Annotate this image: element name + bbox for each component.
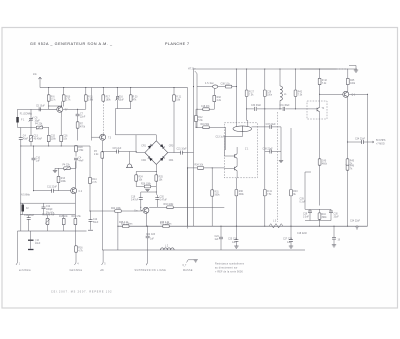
terminal 4 (75, 231, 77, 265)
svg-text:1uF: 1uF (36, 160, 41, 162)
svg-text:C13 1uF: C13 1uF (216, 137, 225, 139)
wire C24 (220, 226, 222, 250)
svg-text:390k: 390k (239, 194, 245, 196)
wire bus C right segment dashdot (300, 68, 357, 70)
svg-text:R 20: R 20 (133, 97, 139, 99)
svg-text:+ REF de la serie 9000: + REF de la serie 9000 (215, 271, 243, 274)
wire T3 connections (92, 135, 105, 152)
wire: left input line (18, 108, 57, 110)
wire right cluster rail (305, 209, 331, 226)
wire R25 (155, 172, 157, 195)
wire P4b (55, 166, 76, 168)
svg-text:C30: C30 (334, 214, 339, 216)
wire C22 (147, 226, 149, 258)
wire R42b down (295, 97, 297, 109)
wire R41 down (264, 196, 266, 226)
wire R26 (136, 186, 156, 188)
wire: top bus A (40, 87, 188, 89)
inductor L1 (280, 86, 282, 100)
svg-text:R36 2.4k: R36 2.4k (160, 222, 170, 224)
svg-text:C11 22nF: C11 22nF (47, 187, 58, 189)
svg-text:C15 2uF: C15 2uF (113, 148, 122, 150)
svg-text:R 11: R 11 (88, 97, 93, 99)
svg-text:C39: C39 (300, 199, 305, 201)
svg-text:C34 22uF: C34 22uF (355, 139, 366, 141)
diode bridge frame (145, 141, 168, 165)
wire bell (129, 152, 131, 165)
wire: rail link column (117, 211, 119, 250)
svg-text:3.9M: 3.9M (88, 99, 93, 101)
wire C12 (43, 203, 45, 214)
capacitor C30b (329, 211, 333, 213)
trimmer arrow C16 (115, 96, 119, 101)
resistor R15 (62, 218, 65, 224)
capacitor C20 (155, 198, 159, 200)
wire R27 down (246, 97, 248, 109)
capacitor C25 to gnd (234, 240, 238, 242)
wire bridge bottom down (155, 165, 157, 172)
wire mid row y108.9 (247, 108, 311, 110)
svg-text:MASSE: MASSE (183, 269, 193, 272)
diode CR3 (160, 144, 165, 149)
wire R11 vertical (85, 88, 87, 110)
thermistor F2 (22, 205, 25, 212)
wire P3 down (101, 158, 103, 250)
resistor R41 (263, 190, 266, 196)
svg-text:100n: 100n (267, 95, 273, 97)
terminal 6 masse (187, 260, 196, 263)
wire: bottom rail middle (118, 225, 368, 227)
capacitor C12 (42, 207, 46, 209)
capacitor C11 (52, 189, 54, 193)
resistor R16 (74, 218, 77, 224)
svg-text:R14: R14 (92, 179, 97, 181)
wire C10 (33, 146, 35, 191)
svg-text:R 27: R 27 (249, 92, 255, 94)
wire R43 down (290, 196, 292, 226)
svg-text:+7 MOD: +7 MOD (376, 143, 385, 145)
wire R40 down (235, 196, 237, 226)
wire L1 down (279, 100, 281, 109)
svg-text:R10: R10 (66, 97, 71, 99)
wire R16 (74, 215, 76, 231)
wire tube pins (236, 69, 247, 127)
svg-text:C38 22uF: C38 22uF (263, 149, 274, 151)
wire: +24v stub (39, 80, 41, 88)
svg-text:C31 36uF: C31 36uF (280, 105, 291, 107)
svg-text:CR3: CR3 (169, 146, 174, 148)
svg-text:P4 22k: P4 22k (63, 165, 71, 167)
capacitor C29 (308, 211, 312, 213)
svg-text:+Bt: +Bt (100, 269, 104, 272)
wire: bottom rail left (18, 230, 87, 232)
svg-text:1uF: 1uF (232, 242, 237, 244)
wire: top bus C (194, 68, 337, 70)
wire R16a (60, 117, 62, 146)
svg-text:R45: R45 (350, 161, 355, 163)
wire left edge (18, 109, 21, 135)
wire C34 out (348, 141, 375, 143)
resistor R17 (102, 95, 105, 101)
svg-text:CEI.2007. MS 2007. REPERE 102: CEI.2007. MS 2007. REPERE 102 (51, 291, 112, 294)
capacitor C38 (270, 150, 272, 154)
svg-text:Gm: Gm (134, 211, 138, 213)
svg-text:CR1: CR1 (141, 146, 146, 148)
capacitor C21 (181, 151, 183, 155)
wire R17 dashed down (102, 88, 104, 95)
capacitor C31 (283, 107, 285, 111)
wire C28 down (264, 97, 266, 109)
svg-text:0.47uF: 0.47uF (160, 199, 168, 201)
terminal 1 (16, 231, 18, 265)
wire tube bottom (224, 132, 242, 145)
capacitor C13 (89, 220, 93, 222)
resistor R19 (225, 85, 231, 88)
wire C16 (115, 88, 136, 135)
resistor R15a (47, 135, 50, 141)
svg-text:1uF: 1uF (150, 239, 155, 241)
svg-text:C21 10uF: C21 10uF (177, 149, 188, 151)
svg-text:C20: C20 (160, 197, 165, 199)
wire row y203 (21, 146, 76, 231)
svg-text:10uF: 10uF (119, 99, 125, 101)
transistor T2 (71, 188, 77, 194)
diode CR4 (160, 156, 165, 161)
svg-text:C16: C16 (119, 97, 124, 99)
resistor R22 (115, 210, 121, 213)
capacitor C14 (27, 218, 31, 220)
svg-text:R32: R32 (217, 97, 222, 99)
svg-text:560k: 560k (215, 194, 221, 196)
wire x367.5 down (367, 142, 369, 226)
svg-text:R16: R16 (78, 248, 83, 250)
svg-text:GE 952A _ GENERATEUR SON A.M.: GE 952A _ GENERATEUR SON A.M. _ (30, 42, 113, 46)
wire zener row (197, 86, 236, 88)
wire x236.4 z-box down (235, 178, 237, 189)
svg-text:22nF: 22nF (80, 116, 86, 118)
resistor C18 (203, 108, 209, 111)
resistor R42 (318, 78, 321, 84)
wire base joins (63, 108, 86, 110)
svg-text:C37 22uF: C37 22uF (266, 124, 277, 126)
svg-text:100k: 100k (350, 83, 356, 85)
svg-text:R35 2.2k: R35 2.2k (119, 222, 129, 224)
wire x264.8 down (264, 109, 266, 189)
svg-text:R18: R18 (78, 147, 83, 149)
svg-text:C13: C13 (34, 136, 39, 138)
wire row y146 left (21, 145, 90, 147)
resistor R18 (75, 145, 78, 151)
svg-text:390k: 390k (322, 217, 328, 219)
wire R14 vertical x90 (89, 146, 91, 211)
wire C19 (141, 192, 157, 207)
wire C16b (30, 231, 32, 249)
ground top right (349, 66, 356, 70)
capacitor C5 (39, 107, 41, 111)
svg-text:C1b: C1b (93, 219, 98, 221)
bridge top wire loop (136, 135, 156, 153)
wire: mid rail y250 (102, 249, 305, 251)
potentiometer P3 (101, 152, 104, 158)
svg-text:40uF: 40uF (23, 138, 29, 140)
svg-text:3.3nF: 3.3nF (303, 217, 309, 219)
resistor R34 (197, 167, 203, 170)
svg-text:CR4: CR4 (169, 160, 174, 162)
capacitor C41 to gnd (332, 238, 336, 240)
svg-text:C24: C24 (215, 236, 220, 238)
terminal 5 (102, 250, 104, 265)
resistor R27 (245, 90, 248, 96)
capacitor C27 to gnd (289, 240, 293, 242)
inductor L2 (161, 248, 175, 250)
ground C38 (279, 161, 283, 163)
wire P2a (30, 128, 32, 147)
potentiometer P4 (36, 126, 42, 129)
capacitor C37 (270, 125, 272, 129)
capacitor C10 (32, 158, 36, 160)
svg-text:C14 40uF: C14 40uF (24, 215, 35, 217)
wire R21 (173, 88, 175, 153)
svg-text:R34 10k: R34 10k (195, 165, 204, 167)
wire R6 (48, 88, 50, 107)
resistor R32 (213, 95, 216, 101)
capacitor C19 (139, 198, 143, 200)
wire P4 row (21, 127, 49, 129)
wire x291 down (290, 128, 292, 189)
svg-text:33uF: 33uF (334, 217, 340, 219)
wire R7 down (77, 128, 79, 140)
wire C13 (90, 211, 92, 230)
resistor R44 (318, 213, 321, 219)
wire R10 (63, 88, 65, 107)
transistor T5b (235, 166, 238, 170)
wire R16b row (196, 127, 226, 133)
wire: bus A corner down to bottom bus (187, 88, 189, 227)
resistor R16b (203, 126, 209, 129)
wire C6 (30, 109, 32, 127)
transistor T1 (343, 91, 349, 97)
svg-text:Cal 6.3Vrms: Cal 6.3Vrms (70, 269, 83, 272)
transistor T3 (100, 134, 106, 140)
svg-text:N 5.6Ma: N 5.6Ma (21, 195, 30, 197)
svg-text:10uF: 10uF (35, 243, 41, 245)
resistor R45 (346, 78, 349, 84)
svg-text:470k: 470k (78, 150, 84, 152)
svg-text:PLANCHE 7: PLANCHE 7 (165, 42, 190, 46)
capacitor C28 (263, 90, 266, 96)
svg-text:SUPPRESSION LIGNE: SUPPRESSION LIGNE (135, 270, 167, 272)
svg-text:C2? C28: C2? C28 (283, 239, 293, 241)
svg-text:C5 10uF: C5 10uF (36, 106, 45, 108)
svg-text:50uF: 50uF (93, 222, 99, 224)
resistor R16c (75, 246, 78, 252)
resistor R16a (60, 135, 63, 141)
capacitor C7 (76, 114, 80, 116)
svg-text:C16: C16 (63, 136, 68, 138)
ground R26 (145, 190, 149, 192)
resistor R33 (167, 206, 173, 209)
wire F2 (22, 203, 24, 214)
svg-text:R 41: R 41 (267, 191, 273, 193)
resistor R6 (47, 95, 50, 101)
svg-text:C29: C29 (303, 214, 308, 216)
wire R13 (58, 168, 60, 190)
wire R42 top (319, 69, 321, 78)
tube V1 ellipse (233, 126, 252, 132)
bell jack (127, 164, 133, 168)
wire R24 (136, 172, 156, 187)
svg-text:Resistance symbolisees: Resistance symbolisees (215, 263, 245, 266)
capacitor C22 (146, 236, 150, 238)
terminal 24v (38, 78, 42, 80)
svg-text:C28: C28 (267, 92, 272, 94)
capacitor C4a (19, 138, 23, 140)
svg-text:R12: R12 (198, 117, 203, 119)
svg-text:R42: R42 (298, 92, 303, 94)
resistor R44c (318, 159, 321, 165)
diode CR1 (148, 144, 153, 149)
capacitor C15 (117, 150, 119, 154)
wire long vertical x91.5 (91, 88, 93, 141)
svg-text:an 6.3Vrms: an 6.3Vrms (19, 269, 32, 272)
svg-text:460k: 460k (322, 164, 328, 166)
svg-text:au directement sur: au directement sur (215, 267, 238, 270)
wire C37 (252, 127, 281, 152)
svg-text:C10: C10 (36, 158, 41, 160)
diode CR2 (148, 156, 153, 161)
capacitor C34 (362, 140, 364, 144)
svg-text:F1 (COMM): F1 (COMM) (20, 113, 32, 115)
potentiometer P2a (30, 135, 33, 141)
svg-text:100pF: 100pF (46, 209, 53, 211)
terminal 7 (146, 258, 148, 265)
svg-text:R 42: R 42 (322, 80, 328, 82)
trimmer C6 (29, 119, 33, 121)
wire R32 (213, 89, 215, 110)
svg-text:1uF: 1uF (215, 239, 220, 241)
wire R20 (130, 88, 132, 109)
wire HT parallel (196, 74, 198, 129)
svg-text:100k: 100k (61, 181, 67, 183)
wire P2 (47, 215, 49, 231)
resistor R21 (173, 95, 176, 101)
wire R12 (195, 109, 197, 127)
wire C15 (102, 151, 137, 153)
svg-text:C40: C40 (322, 161, 327, 163)
transistor T7 (57, 106, 63, 112)
dash box Z1 (224, 123, 257, 178)
resistor R11 (84, 95, 87, 101)
resistor R20 (129, 95, 132, 101)
wire T4 (311, 85, 320, 130)
svg-text:R43: R43 (293, 191, 298, 193)
wire T7 emitter/collector (49, 101, 62, 117)
svg-text:C30 33uF: C30 33uF (251, 105, 262, 107)
resistor R24 (135, 175, 138, 181)
wire C14 (28, 215, 30, 231)
wire R15a (48, 128, 50, 147)
svg-text:100k: 100k (51, 138, 57, 140)
wire bridge right (168, 152, 194, 154)
wire C18 row (197, 108, 214, 110)
wire misc x187 bottom (187, 168, 189, 229)
resistor R13 (57, 176, 60, 182)
wire R31 (211, 168, 213, 226)
svg-text:0.47uF: 0.47uF (131, 199, 139, 201)
svg-text:R25: R25 (159, 177, 164, 179)
transistor T4 (317, 107, 320, 111)
svg-text:C18 47k: C18 47k (201, 106, 210, 108)
wire R34 (188, 167, 225, 169)
wire right cluster stub (305, 172, 311, 209)
wire row y211 to T6 (90, 210, 142, 212)
capacitor C4 (74, 158, 78, 160)
component F1 (16, 117, 19, 123)
wire T6 (141, 207, 148, 226)
wire row y214.6 (21, 214, 76, 216)
resistor R7 (76, 122, 79, 128)
svg-text:R16 56k: R16 56k (201, 124, 210, 126)
capacitor C16b electrolytic (28, 239, 34, 241)
zener diode Z (213, 85, 218, 88)
svg-text:50 KHPS: 50 KHPS (376, 140, 386, 142)
wire T2 (59, 161, 76, 214)
wire R16b corner to Z1 (225, 133, 227, 150)
wire T1 (320, 91, 368, 142)
ground P4b (53, 170, 57, 172)
resistor R35 on bus (123, 225, 129, 228)
resistor R45c (346, 159, 349, 165)
ground C13 (88, 229, 93, 231)
dashed box T4 (307, 101, 327, 119)
wire C38 (265, 152, 281, 161)
svg-text:R16 1.5k: R16 1.5k (72, 216, 82, 218)
svg-text:R45: R45 (350, 80, 355, 82)
ground C16b (28, 249, 34, 251)
potentiometer P4b (64, 167, 70, 170)
wire R46 (347, 142, 349, 226)
svg-text:C12: C12 (46, 206, 51, 208)
wire Z1 internals (224, 145, 237, 178)
resistor R46 (346, 164, 349, 170)
resistor R36 on bus (163, 225, 169, 228)
resistor R10 (62, 95, 65, 101)
svg-text:P4 22k: P4 22k (35, 123, 43, 125)
svg-text:C18 22nF: C18 22nF (297, 233, 308, 235)
potentiometer P2 (46, 218, 49, 224)
svg-text:10pF: 10pF (35, 120, 41, 122)
capacitor C30 (255, 107, 257, 111)
wire verticals from bus C (247, 69, 296, 90)
svg-text:CR2: CR2 (141, 160, 146, 162)
svg-text:C15: C15 (51, 136, 56, 138)
wire screen divider dashed (276, 112, 278, 222)
svg-text:HT 24v: HT 24v (188, 69, 196, 71)
svg-text:R24: R24 (139, 177, 144, 179)
zigzag on bus (269, 224, 283, 228)
wire C4a (20, 135, 22, 146)
transistor T5a (235, 154, 238, 158)
svg-text:R40: R40 (239, 191, 244, 193)
wire R44c (319, 130, 321, 206)
wire R18 (75, 145, 77, 156)
svg-text:R31: R31 (215, 192, 220, 194)
resistor R31 (211, 190, 214, 196)
svg-text:R44: R44 (322, 214, 327, 216)
resistor R12 (195, 115, 198, 121)
svg-text:C19: C19 (131, 197, 136, 199)
svg-text:R26 100k: R26 100k (141, 184, 152, 186)
